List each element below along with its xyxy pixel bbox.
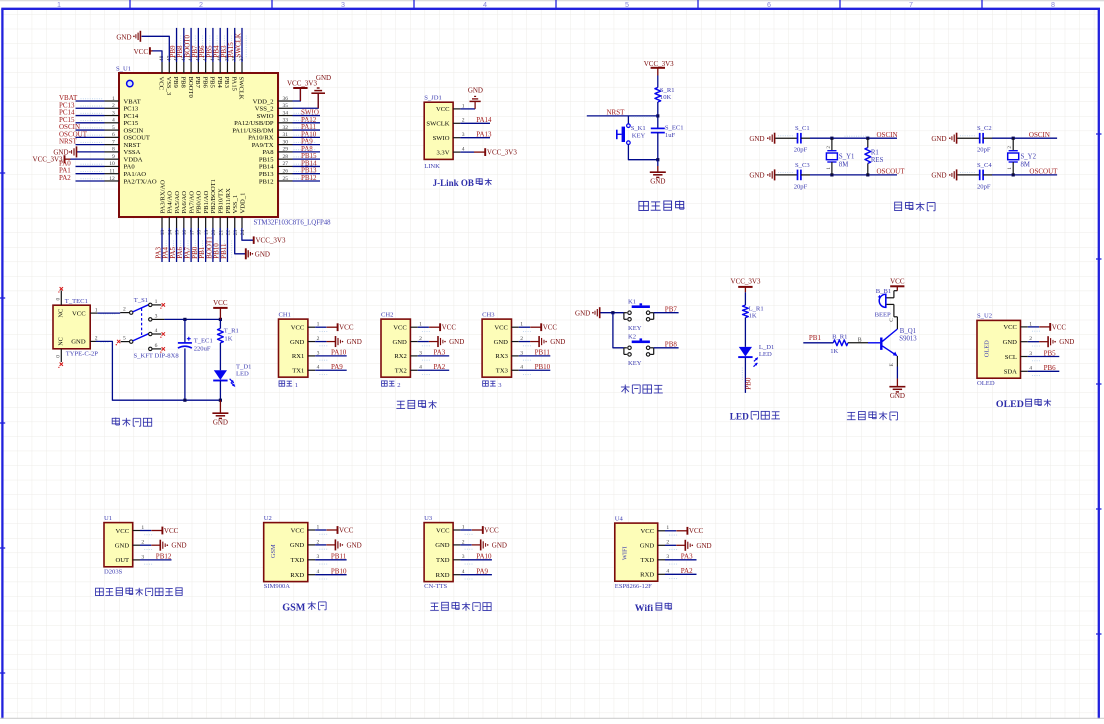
pin 5 (MCU left) [105, 129, 120, 131]
node NRST junction [656, 114, 659, 117]
svg-text:KEY: KEY [628, 325, 642, 332]
svg-text:TXD: TXD [291, 557, 305, 564]
svg-text:1: 1 [155, 299, 158, 305]
wire [97, 312, 120, 314]
svg-text:PB11: PB11 [331, 553, 347, 561]
svg-text:BEEP: BEEP [875, 311, 891, 318]
svg-text:PA3: PA3 [681, 553, 693, 561]
pin 3 (CH1.RX1) [308, 355, 315, 357]
pin 38 (MCU top) [234, 62, 236, 73]
svg-text:27: 27 [283, 161, 289, 167]
svg-text:NC: NC [58, 309, 65, 318]
pin 1 (CH1.VCC) [308, 326, 315, 328]
power VCC [665, 530, 676, 532]
svg-text:4: 4 [112, 118, 115, 124]
svg-text:PA7/AO: PA7/AO [188, 191, 195, 214]
power VCC_3V3 (VDD_1 pin 24) [242, 228, 254, 240]
pin 3 (S_JD1.SWIO) [453, 137, 460, 139]
switch S_K1 (KEY) [627, 116, 629, 124]
svg-text:GND: GND [640, 543, 655, 550]
svg-text:3: 3 [155, 313, 158, 319]
wire net PA3 [665, 559, 697, 561]
svg-text:PC14: PC14 [124, 113, 139, 120]
wire net PA9 [293, 144, 321, 146]
wire net PA4 [168, 228, 170, 262]
wire net PB7 [654, 312, 679, 314]
junction [183, 318, 186, 321]
svg-text:CH2: CH2 [381, 311, 393, 318]
pin 36 (MCU right) [278, 100, 293, 102]
pin 1 (S_U2.VCC) [1021, 326, 1028, 328]
LED L_D1 [739, 347, 752, 357]
svg-text:VCC: VCC [393, 325, 407, 332]
svg-text:S_U1: S_U1 [116, 66, 131, 73]
svg-text:CH3: CH3 [482, 311, 495, 318]
pin 1 (CH3.VCC) [512, 326, 519, 328]
connector CH2 () [381, 319, 410, 377]
svg-text:GND: GND [393, 339, 408, 346]
svg-text:LED: LED [759, 351, 772, 358]
svg-text:RX3: RX3 [495, 353, 508, 360]
svg-text:T_S1: T_S1 [134, 297, 148, 304]
svg-text:1: 1 [1007, 167, 1013, 170]
svg-text:PB0: PB0 [744, 377, 752, 390]
svg-text:K1: K1 [628, 298, 636, 305]
wire net PB1 [205, 228, 207, 262]
svg-text:OSCOUT: OSCOUT [124, 135, 150, 142]
wire net PA9 [460, 574, 492, 576]
no-ERC marker [162, 347, 165, 350]
svg-text:GND: GND [696, 542, 711, 550]
svg-text:NRST: NRST [59, 138, 78, 146]
pin 15 (MCU bottom) [176, 217, 178, 228]
pin 2 (MCU left) [105, 107, 120, 109]
title key circuit [621, 386, 630, 388]
ground (VSSA pin 8) [77, 151, 105, 153]
connector U2 (SIM900A) [264, 523, 308, 582]
pin 3 (S_U2.SCL) [1021, 356, 1028, 358]
pin 35 (MCU right) [278, 107, 293, 109]
svg-text:B_B1: B_B1 [876, 288, 891, 295]
pin 4 (S_JD1.3.3V) [453, 151, 460, 153]
svg-text:VBAT: VBAT [124, 98, 141, 105]
svg-text:SIM900A: SIM900A [264, 583, 291, 590]
svg-text:S_Y2: S_Y2 [1021, 154, 1037, 161]
svg-text:PB13: PB13 [259, 171, 274, 178]
power ground GND [315, 544, 326, 546]
wire net OSCOUT [76, 136, 105, 138]
svg-text:GND: GND [749, 172, 764, 180]
svg-text:VCC: VCC [689, 527, 704, 535]
svg-text:GND: GND [115, 543, 130, 550]
connector U1 (D203S) [104, 523, 133, 567]
svg-text:PA4/AO: PA4/AO [167, 191, 174, 214]
title crystal circuit [895, 202, 902, 210]
wire net PB11 [519, 355, 551, 357]
wire net PC15 [76, 122, 105, 124]
svg-text:PB8: PB8 [180, 77, 187, 89]
svg-text:PA12/USB/DP: PA12/USB/DP [234, 120, 274, 127]
pin 4 (U2.RXD) [308, 574, 315, 576]
svg-text:VCC: VCC [134, 48, 149, 56]
pin 32 (MCU right) [278, 129, 293, 131]
pin 4 (CH1.TX1) [308, 369, 315, 371]
svg-text:PA2: PA2 [434, 363, 446, 371]
title voice broadcast module [431, 602, 439, 604]
resistor S_R1 [655, 88, 661, 103]
wire net PB15 [293, 158, 321, 160]
wire net PA13 [460, 137, 490, 139]
pin 4 (U3.RXD) [453, 574, 460, 576]
svg-text:1: 1 [826, 167, 832, 170]
svg-text:VCC: VCC [436, 106, 450, 113]
svg-text:20: 20 [211, 230, 217, 236]
svg-text:VCC: VCC [158, 77, 165, 91]
title serial circuit [397, 400, 405, 402]
svg-text:RX1: RX1 [292, 353, 304, 360]
svg-text:VCC: VCC [291, 527, 305, 534]
wire net PA14 [460, 122, 490, 124]
svg-text:GND: GND [575, 309, 590, 317]
push-button K1 (KEY) [623, 313, 625, 320]
power ground GND [460, 544, 471, 546]
svg-text:PA0: PA0 [124, 164, 136, 171]
junction [611, 311, 614, 314]
svg-text:2: 2 [112, 103, 115, 109]
op-amp U1 (MCU S_U1 STM32F103C8T6 body) [119, 73, 278, 217]
wire net PA11 [293, 129, 321, 131]
svg-text:GND: GND [347, 541, 362, 549]
wire net PA12 [293, 122, 321, 124]
pin 44 (MCU top) [190, 62, 192, 73]
pin 40 (MCU top) [219, 62, 221, 73]
svg-text:TX2: TX2 [395, 368, 407, 375]
pin 1 (CH2.VCC) [410, 326, 417, 328]
crystal S_Y2 (8M) [1012, 138, 1014, 151]
ground (VSS_2 pin 35) [293, 93, 319, 108]
svg-text:S_KFT DIP-8X8: S_KFT DIP-8X8 [134, 353, 180, 360]
pin 4 (CH2.TX2) [410, 369, 417, 371]
svg-text:9: 9 [112, 154, 115, 160]
pin 1 (U1.VCC) [133, 530, 140, 532]
svg-text:SWIO: SWIO [257, 113, 274, 120]
svg-text:GSM: GSM [270, 544, 277, 558]
power VCC_3V3 (S_JD1 pin 4) [460, 151, 474, 153]
svg-text:28: 28 [283, 154, 289, 160]
svg-text:RXD: RXD [290, 572, 304, 579]
pin 2 (S_JD1.SWCLK) [453, 122, 460, 124]
svg-text:PB11/RX: PB11/RX [225, 188, 232, 214]
wire [613, 313, 624, 348]
svg-text:1uF: 1uF [665, 132, 676, 139]
power VCC_3V3 (VDDA pin 9) [70, 158, 105, 160]
pin 4 (CH3.TX3) [512, 369, 519, 371]
wire net NRST [587, 115, 658, 117]
svg-text:GND: GND [890, 392, 905, 400]
wire [600, 312, 624, 314]
capacitor S_C3 [797, 170, 799, 181]
svg-text:10: 10 [109, 161, 115, 167]
svg-text:U2: U2 [264, 515, 272, 522]
svg-text:PA9/TX: PA9/TX [252, 142, 274, 149]
pin 24 (MCU bottom) [241, 217, 243, 228]
svg-text:T_D1: T_D1 [236, 363, 251, 370]
svg-text:S_C4: S_C4 [977, 162, 992, 169]
svg-text:7: 7 [112, 139, 115, 145]
pin 9 (MCU left) [105, 158, 120, 160]
svg-text:1K: 1K [830, 348, 838, 355]
svg-text:PB1/AO: PB1/AO [203, 191, 210, 214]
svg-text:VCC: VCC [339, 526, 354, 534]
svg-text:PA14: PA14 [476, 116, 492, 124]
svg-text:PB14: PB14 [259, 164, 274, 171]
svg-text:3: 3 [112, 110, 115, 116]
svg-text:2: 2 [826, 146, 832, 149]
label CH2 sub-name [382, 381, 388, 386]
pin 1 (U3.VCC) [453, 529, 460, 531]
svg-text:PB10/TX: PB10/TX [217, 188, 224, 214]
svg-text:GND: GND [213, 419, 228, 427]
pin 6 (MCU left) [105, 136, 120, 138]
svg-text:D203S: D203S [104, 568, 123, 575]
wire net PA3 [161, 228, 163, 262]
LED T_D1 [214, 370, 227, 380]
svg-text:PB9: PB9 [172, 77, 179, 89]
svg-text:16: 16 [182, 230, 188, 236]
junction [1012, 137, 1015, 140]
power ground GND [1028, 341, 1039, 343]
svg-text:8M: 8M [1021, 161, 1030, 168]
svg-text:C: C [889, 318, 895, 322]
power VCC [519, 326, 530, 328]
pin 1 (U2.VCC) [308, 529, 315, 531]
wire net PA2 [665, 573, 697, 575]
pin 2 (CH3.GND) [512, 341, 519, 343]
svg-text:VSSA: VSSA [124, 149, 141, 156]
power VCC [140, 530, 151, 532]
svg-text:PB5: PB5 [209, 77, 216, 89]
svg-text:5: 5 [123, 336, 126, 342]
wire [657, 76, 659, 88]
wire net BOOT1 [212, 228, 214, 262]
svg-text:T_TEC1: T_TEC1 [65, 298, 88, 305]
wire net PB9 [176, 28, 178, 62]
svg-text:GND: GND [71, 339, 86, 346]
svg-text:PA13: PA13 [476, 131, 492, 139]
wire net PB12 [140, 559, 172, 561]
svg-text:PB6: PB6 [1044, 364, 1057, 372]
svg-text:GND: GND [550, 338, 565, 346]
svg-text:Wifi: Wifi [635, 603, 654, 614]
svg-text:4: 4 [155, 328, 158, 334]
pin 7 (MCU left) [105, 144, 120, 146]
resistor B_R1 (1K) [833, 340, 848, 346]
svg-text:SDA: SDA [1004, 369, 1017, 376]
svg-text:13: 13 [160, 230, 166, 236]
svg-text:PA9: PA9 [476, 568, 488, 576]
svg-text:GND: GND [468, 87, 483, 95]
svg-text:21: 21 [218, 230, 224, 236]
power VCC [315, 529, 326, 531]
no-ERC marker [162, 332, 165, 335]
svg-text:S_C2: S_C2 [977, 125, 992, 132]
svg-text:3: 3 [341, 0, 345, 9]
pin 18 (MCU bottom) [197, 217, 199, 228]
pin 2 (U4.GND) [658, 544, 665, 546]
svg-text:2: 2 [95, 336, 98, 342]
svg-text:OLED: OLED [984, 340, 991, 357]
capacitor T_EC1 (220uF) [184, 319, 186, 343]
svg-text:30: 30 [283, 139, 289, 145]
svg-text:VCC_3V3: VCC_3V3 [487, 149, 517, 157]
no-ERC marker [60, 363, 63, 366]
svg-text:OLED: OLED [996, 399, 1024, 410]
pin 1 (S_JD1.VCC) [453, 108, 460, 110]
pin 48 (MCU top) [161, 62, 163, 73]
wire [775, 174, 797, 176]
svg-text:SWCLK: SWCLK [234, 33, 242, 58]
junction [656, 158, 659, 161]
wire [744, 318, 746, 347]
svg-text:LINK: LINK [424, 163, 440, 170]
wire net BOOT0 [190, 28, 192, 62]
pin 45 (MCU top) [183, 62, 185, 73]
svg-text:2: 2 [199, 0, 203, 9]
pin 3 (MCU left) [105, 115, 120, 117]
power ground GND [519, 341, 530, 343]
power ground GND [665, 544, 676, 546]
svg-text:PB8: PB8 [665, 341, 678, 349]
svg-text:1: 1 [57, 0, 61, 9]
svg-text:GND: GND [492, 541, 507, 549]
pin 4 (U4.RXD) [658, 573, 665, 575]
svg-text:2: 2 [397, 382, 400, 389]
svg-text:B_R1: B_R1 [832, 333, 847, 340]
svg-text:VSS_1: VSS_1 [232, 195, 239, 214]
svg-text:VCC: VCC [1052, 323, 1067, 331]
pin 3 (CH2.RX2) [410, 355, 417, 357]
wire net OSCIN [76, 129, 105, 131]
power VCC [315, 326, 326, 328]
svg-text:B_Q1: B_Q1 [900, 328, 916, 335]
svg-text:R1: R1 [871, 149, 879, 156]
svg-text:S_R1: S_R1 [660, 87, 675, 94]
wire net PC13 [76, 107, 105, 109]
svg-text:11: 11 [109, 169, 115, 175]
svg-text:22: 22 [226, 230, 232, 236]
svg-text:PA1/AO: PA1/AO [124, 171, 147, 178]
wire net OSCIN (right) [983, 137, 992, 139]
svg-text:OSCIN: OSCIN [1029, 131, 1050, 139]
svg-text:0: 0 [55, 298, 61, 301]
pin 47 (MCU top) [168, 62, 170, 73]
wire [657, 133, 659, 160]
svg-text:VSS_2: VSS_2 [255, 106, 274, 113]
junction [830, 137, 833, 140]
capacitor S_C2 [979, 133, 981, 144]
svg-text:PB1: PB1 [809, 334, 822, 342]
svg-text:GND: GND [931, 172, 946, 180]
svg-text:VCC: VCC [1003, 324, 1017, 331]
svg-text:14: 14 [167, 230, 173, 236]
svg-text:0: 0 [55, 355, 61, 358]
wire net PB14 [293, 165, 321, 167]
svg-text:20pF: 20pF [794, 183, 808, 190]
svg-text:5: 5 [112, 125, 115, 131]
pin 29 (MCU right) [278, 151, 293, 153]
pin 2 (S_U2.GND) [1021, 341, 1028, 343]
pin 39 (MCU top) [226, 62, 228, 73]
wire [628, 145, 657, 160]
ground (S_JD1 pin 1) [460, 108, 475, 110]
wire net PA5 [176, 228, 178, 262]
svg-text:VCC: VCC [494, 325, 508, 332]
svg-text:10K: 10K [660, 94, 672, 101]
wire [219, 343, 221, 370]
wire net PB0 [197, 228, 199, 262]
svg-text:18: 18 [197, 230, 203, 236]
svg-text:12: 12 [109, 176, 115, 182]
svg-text:PA6/AO: PA6/AO [181, 191, 188, 214]
svg-text:RX2: RX2 [394, 353, 406, 360]
svg-text:PB2/BOOT1: PB2/BOOT1 [210, 179, 217, 213]
pin 10 (MCU left) [105, 165, 120, 167]
wire net PA15 [234, 28, 236, 62]
svg-text:SWCLK: SWCLK [238, 77, 245, 100]
svg-text:OSCOUT: OSCOUT [1029, 168, 1058, 176]
power ground GND [418, 341, 429, 343]
svg-text:VCC: VCC [442, 324, 457, 332]
pin 33 (MCU right) [278, 122, 293, 124]
svg-text:GND: GND [494, 339, 509, 346]
svg-text:VCC_3V3: VCC_3V3 [731, 277, 761, 285]
connector U4 (ESP8266-12F) [615, 523, 658, 581]
svg-text:2: 2 [123, 307, 126, 313]
wire net PB11 [226, 228, 228, 262]
svg-text:TYPE-C-2P: TYPE-C-2P [66, 350, 99, 357]
wire net PB8 [183, 28, 185, 62]
wire net OSCOUT [801, 174, 810, 176]
pin 37 (MCU top) [241, 62, 243, 73]
svg-text:PB7: PB7 [665, 305, 678, 313]
wire net PA2 [76, 180, 105, 182]
svg-text:S_C1: S_C1 [795, 125, 810, 132]
svg-text:1K: 1K [224, 336, 232, 343]
svg-text:PB12: PB12 [259, 178, 274, 185]
title power circuit [112, 418, 119, 424]
wire (GND return) [96, 341, 221, 400]
svg-text:BOOT0: BOOT0 [187, 77, 194, 99]
svg-text:2: 2 [1007, 146, 1013, 149]
svg-text:GND: GND [171, 542, 186, 550]
pin 2 (U1.GND) [133, 544, 140, 546]
power VCC_3V3 (VDD_2 pin 36) [293, 88, 301, 101]
svg-text:GND: GND [347, 338, 362, 346]
pin 2 (T_TEC1.GND) [90, 340, 97, 342]
pin 5 (T_S1) [121, 341, 130, 343]
svg-text:OUT: OUT [116, 557, 130, 564]
push-button K2 (KEY) [623, 348, 625, 355]
wire [957, 137, 979, 139]
svg-text:PB3: PB3 [223, 77, 230, 89]
wire net PA1 [76, 173, 105, 175]
svg-text:35: 35 [283, 103, 289, 109]
svg-text:1: 1 [295, 382, 298, 389]
svg-text:RXD: RXD [640, 572, 654, 579]
svg-text:25: 25 [283, 176, 289, 182]
svg-text:6: 6 [155, 343, 158, 349]
pin 3 (CH3.RX3) [512, 355, 519, 357]
